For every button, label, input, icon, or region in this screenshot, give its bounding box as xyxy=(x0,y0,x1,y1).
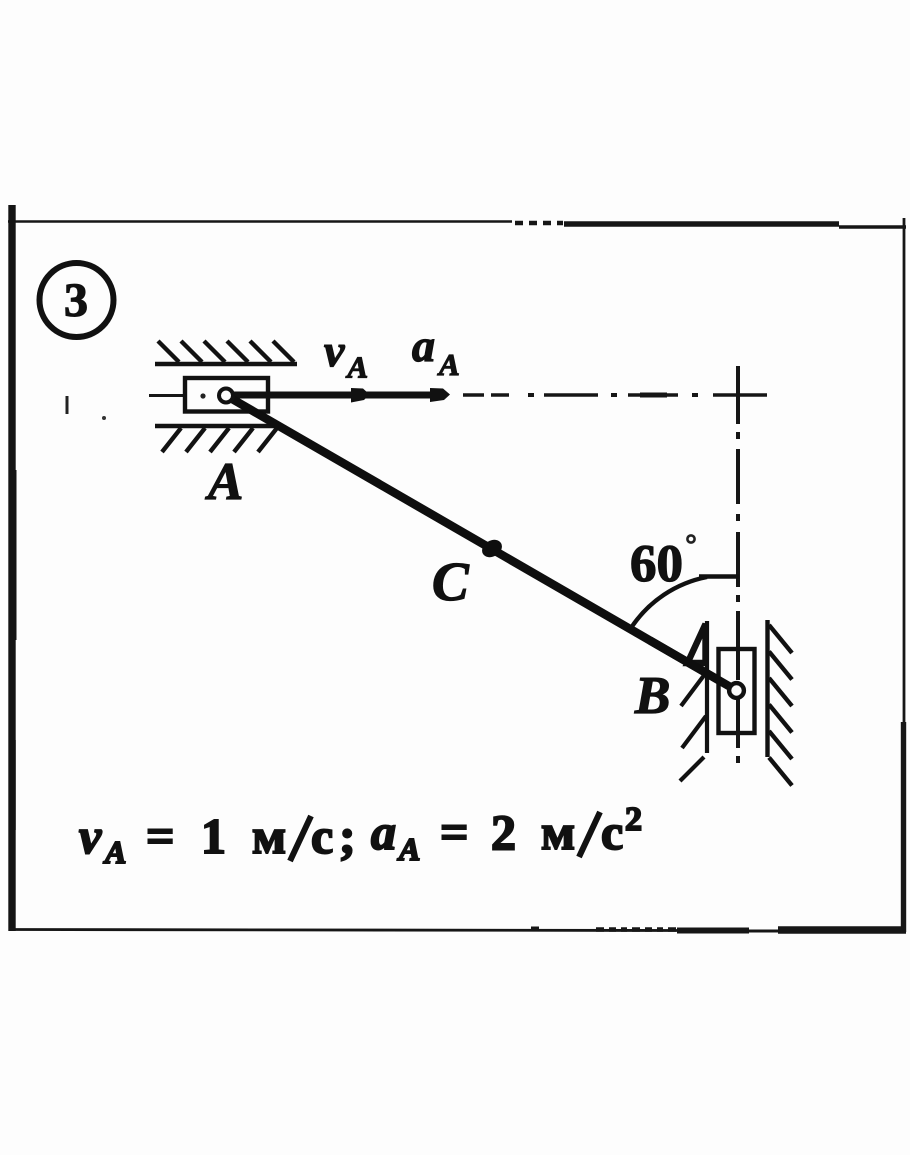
velocity arrow vA head xyxy=(351,388,370,403)
formula slash 1 xyxy=(290,816,311,861)
frame top border xyxy=(8,222,906,228)
svg-text:v: v xyxy=(79,808,102,864)
pin B xyxy=(729,683,744,698)
svg-text:60: 60 xyxy=(630,535,683,593)
horizontal dash-dot axis left stub xyxy=(149,394,186,397)
acceleration arrow aA head xyxy=(430,388,450,402)
acceleration arrow aA shaft xyxy=(230,392,432,399)
svg-text:2: 2 xyxy=(625,801,642,838)
frame right border xyxy=(902,218,905,932)
svg-text:A: A xyxy=(205,453,243,511)
scan noise dot xyxy=(102,416,106,420)
lower guide rail at A xyxy=(155,426,278,452)
point C marker xyxy=(479,536,505,560)
svg-text:C: C xyxy=(432,551,470,612)
svg-text:a: a xyxy=(371,804,396,860)
svg-text:aA: aA xyxy=(412,320,460,382)
svg-text:м: м xyxy=(252,808,286,864)
svg-text:vA: vA xyxy=(324,325,368,385)
upper guide rail at A xyxy=(155,341,297,364)
svg-text:2: 2 xyxy=(491,804,516,860)
svg-text:с: с xyxy=(311,808,333,864)
vertical dash-dot axis xyxy=(736,366,740,680)
arc horizontal tick xyxy=(699,574,739,579)
vertical dash-dot bottom dot xyxy=(736,756,740,763)
svg-text:B: B xyxy=(634,667,670,725)
svg-text:=: = xyxy=(440,804,469,860)
svg-text:3: 3 xyxy=(64,274,88,327)
degree mark xyxy=(687,535,694,542)
frame bottom border xyxy=(9,928,906,931)
slider A body xyxy=(185,378,268,412)
vertical dash-dot through slider B xyxy=(736,651,740,680)
horizontal dash-dot axis xyxy=(463,393,767,396)
given values formula xyxy=(79,801,642,870)
svg-text:A: A xyxy=(103,834,126,870)
formula slash 2 xyxy=(579,812,600,857)
scan noise tick 1 xyxy=(66,396,69,414)
rod AB end over slider B xyxy=(650,641,737,691)
svg-text:1: 1 xyxy=(201,808,226,864)
problem number badge circle xyxy=(40,263,114,337)
svg-text:с: с xyxy=(601,804,623,860)
svg-text:;: ; xyxy=(339,808,356,864)
frame left border xyxy=(8,205,15,931)
scan dot inside slider A xyxy=(200,393,205,398)
left guide wall at B xyxy=(680,621,707,781)
slider B body xyxy=(719,649,755,733)
svg-text:м: м xyxy=(541,804,575,860)
rod AB xyxy=(227,396,737,691)
left wall top triangle xyxy=(688,624,706,663)
60 degree arc xyxy=(631,577,707,628)
svg-text:A: A xyxy=(397,831,420,867)
svg-text:=: = xyxy=(146,808,175,864)
right guide wall at B xyxy=(768,620,793,786)
pin A xyxy=(219,389,233,403)
